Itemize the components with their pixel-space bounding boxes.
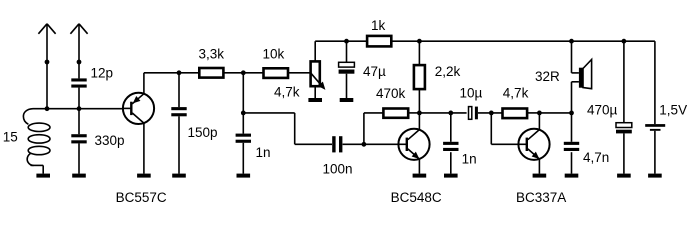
svg-text:4,7k: 4,7k	[274, 84, 300, 99]
svg-text:3,3k: 3,3k	[199, 47, 225, 62]
svg-text:BC337A: BC337A	[516, 190, 566, 205]
svg-text:32R: 32R	[535, 69, 560, 84]
svg-text:1n: 1n	[256, 145, 271, 160]
svg-text:100n: 100n	[323, 162, 353, 177]
svg-text:1,5V: 1,5V	[659, 102, 687, 117]
svg-text:1n: 1n	[462, 151, 477, 166]
svg-text:BC557C: BC557C	[116, 190, 167, 205]
svg-text:BC548C: BC548C	[391, 190, 442, 205]
svg-text:47µ: 47µ	[363, 64, 386, 79]
svg-text:4,7n: 4,7n	[583, 150, 609, 165]
svg-text:12p: 12p	[91, 65, 114, 80]
svg-text:2,2k: 2,2k	[435, 64, 461, 79]
svg-text:150p: 150p	[188, 125, 218, 140]
svg-text:15: 15	[3, 129, 18, 144]
svg-text:10k: 10k	[263, 47, 285, 62]
svg-text:4,7k: 4,7k	[503, 86, 529, 101]
svg-text:1k: 1k	[371, 18, 386, 33]
svg-text:330p: 330p	[95, 133, 125, 148]
svg-text:470µ: 470µ	[587, 102, 618, 117]
svg-text:10µ: 10µ	[460, 86, 483, 101]
svg-text:470k: 470k	[376, 86, 406, 101]
